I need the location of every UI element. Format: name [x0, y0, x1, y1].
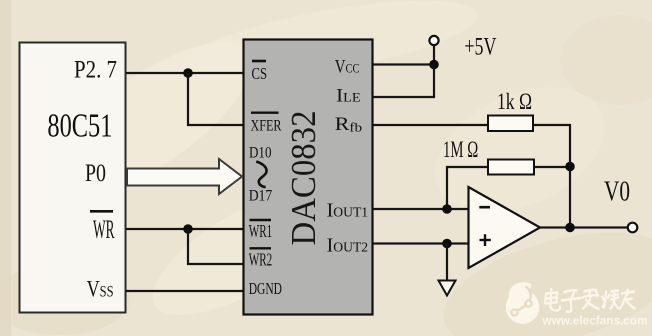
node junction on WR line: [183, 224, 193, 234]
wire IOUT2 node to ground: [446, 244, 448, 281]
svg-text:DGND: DGND: [249, 279, 282, 298]
svg-text:www.elecfans.com: www.elecfans.com: [541, 314, 647, 328]
svg-text:P2. 7: P2. 7: [74, 57, 117, 84]
node junction R2/feedback: [565, 162, 575, 172]
wire branch to WR2: [188, 229, 243, 264]
watermark logo elecfans: [506, 282, 540, 324]
svg-text:ILE: ILE: [336, 85, 361, 106]
svg-text:XFER: XFER: [251, 117, 282, 135]
bus arrow P0 to data inputs: [127, 159, 242, 194]
svg-text:WR: WR: [93, 215, 115, 244]
op-amp U1: [469, 187, 541, 268]
svg-text:WR1: WR1: [249, 221, 273, 241]
wire P2.7 to CS: [126, 72, 243, 74]
pin label WR (active low): [90, 211, 115, 244]
wire Rfb to resistor R1: [373, 124, 488, 126]
svg-text:P0: P0: [85, 160, 106, 187]
wire op-amp output to V0 terminal: [540, 226, 628, 228]
pin label WR2 (active low): [249, 248, 273, 269]
wire branch to XFER: [188, 73, 243, 125]
node junction output/feedback: [565, 223, 575, 233]
terminal V0 (open circle): [628, 223, 638, 233]
svg-text:WR2: WR2: [249, 250, 273, 270]
wire R1 to feedback node: [533, 125, 570, 228]
squiggle between D10 and D17: [256, 162, 266, 188]
IC DAC0832 body: [244, 40, 373, 315]
svg-text:1k Ω: 1k Ω: [497, 89, 532, 114]
IC 80C51 body: [20, 43, 126, 313]
wire IOUT2 to op-amp non-inverting input: [373, 242, 468, 244]
node junction VCC/+5V: [429, 60, 439, 70]
ground: [439, 281, 456, 296]
svg-text:CS: CS: [252, 64, 268, 83]
pin label XFER (active low): [251, 113, 282, 135]
wire inverting node to resistor R2: [447, 167, 488, 209]
wire ILE to +5V node: [373, 65, 434, 98]
wire WR to WR1: [126, 228, 243, 230]
node junction on P2.7 line: [183, 68, 193, 78]
resistor R1 1k: [488, 116, 533, 132]
pin label CS (active low): [252, 61, 268, 83]
wire IOUT1 to op-amp inverting input: [373, 208, 468, 210]
pin label WR1 (active low): [249, 220, 273, 241]
node junction IOUT1: [442, 204, 452, 214]
wire R2 to feedback node: [534, 166, 570, 168]
svg-text:80C51: 80C51: [47, 107, 112, 144]
node junction IOUT2: [442, 239, 452, 249]
svg-text:1M Ω: 1M Ω: [443, 137, 478, 162]
svg-text:D10: D10: [249, 143, 272, 162]
resistor R2 1M: [488, 160, 534, 175]
svg-text:D17: D17: [249, 186, 273, 205]
terminal +5V (open circle): [429, 36, 438, 45]
wire +5V terminal drop: [433, 45, 435, 65]
watermark text dianzifashaoyou: [545, 290, 635, 312]
svg-text:VCC: VCC: [335, 57, 360, 78]
wire VSS to DGND: [126, 290, 243, 292]
svg-text:+5V: +5V: [464, 34, 496, 61]
svg-text:V0: V0: [604, 177, 630, 208]
wire VCC to +5V node: [373, 63, 434, 65]
svg-text:DAC0832: DAC0832: [285, 111, 323, 246]
